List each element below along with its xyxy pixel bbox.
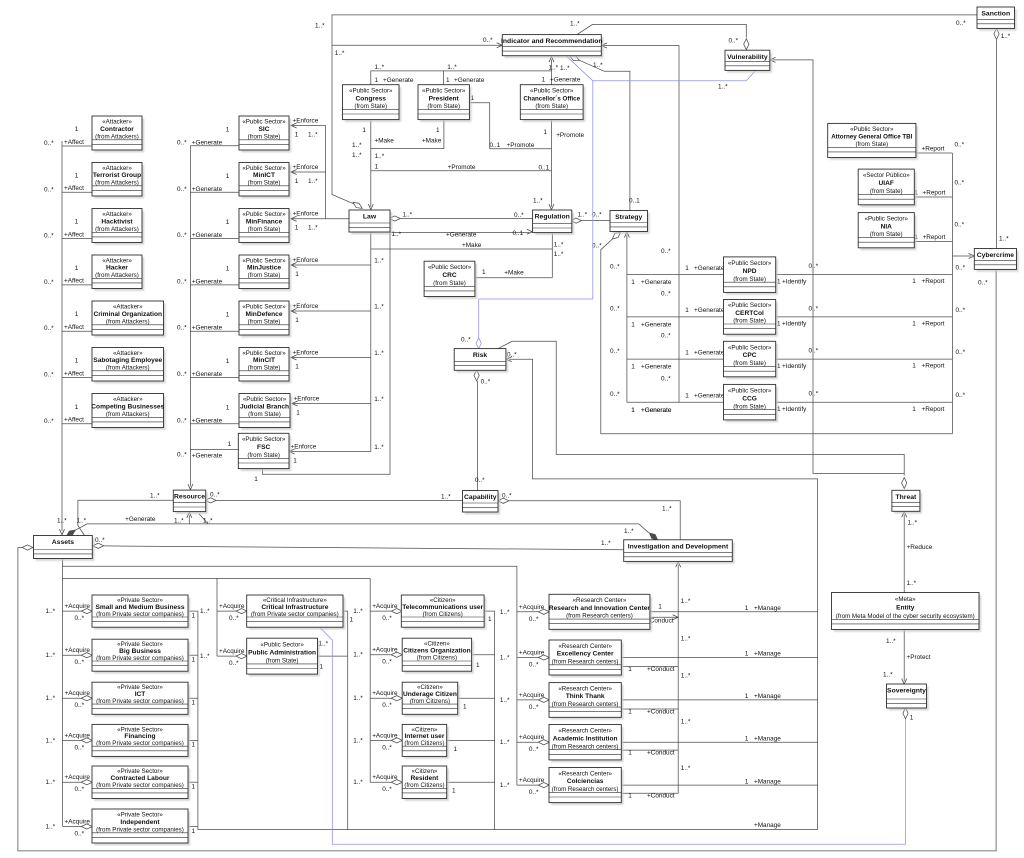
wire affect row 4 (62, 284, 92, 286)
wire Assets-Resource-IandD long (74, 524, 649, 533)
svg-text:(from Research centers): (from Research centers) (552, 658, 619, 665)
svg-text:Sanction: Sanction (981, 11, 1010, 18)
wire Risk-Threat (498, 341, 904, 475)
svg-text:(from Attackers): (from Attackers) (106, 365, 150, 372)
wire Cybercrime-Assets loop (18, 269, 996, 851)
svg-text:0..*: 0..* (955, 141, 965, 148)
wire Chancellor to Indicator (551, 60, 553, 85)
svg-text:1..*: 1..* (353, 608, 363, 615)
svg-text:0..*: 0..* (177, 325, 187, 332)
svg-text:Cybercrime: Cybercrime (977, 252, 1015, 259)
aggregation diamond at Vulnerability top (744, 39, 749, 50)
class Underage Citizen (402, 682, 460, 716)
svg-text:Academic Institution: Academic Institution (553, 735, 618, 742)
wire private right stub (188, 739, 198, 741)
svg-text:1: 1 (75, 311, 79, 318)
wire acquire research 1 (517, 611, 549, 613)
svg-text:1..*: 1..* (375, 64, 385, 71)
aggregation diamond at Regulation right (571, 218, 582, 223)
svg-text:0..*: 0..* (382, 702, 392, 709)
svg-text:1: 1 (912, 321, 916, 328)
svg-text:1..*: 1..* (886, 638, 896, 645)
wire citizen right stub (447, 739, 495, 741)
svg-text:«Private Sector»: «Private Sector» (117, 768, 163, 775)
svg-text:1: 1 (295, 317, 299, 324)
svg-text:1..*: 1..* (554, 242, 564, 249)
svg-text:1..*: 1..* (374, 304, 384, 311)
blue aggregation diamond at Risk top (476, 338, 481, 349)
svg-text:0..*: 0..* (461, 337, 471, 344)
svg-text:+Identify: +Identify (782, 321, 807, 328)
svg-text:+Generate: +Generate (383, 77, 414, 84)
svg-text:0..*: 0..* (502, 492, 512, 499)
svg-text:«Attacker»: «Attacker» (113, 350, 143, 357)
svg-text:0..*: 0..* (44, 372, 54, 379)
arrowhead into Assets top (60, 529, 65, 535)
arrowhead into Threat bottom (902, 512, 907, 518)
svg-text:Terrorist Group: Terrorist Group (93, 172, 141, 179)
class CCG (724, 384, 778, 422)
svg-text:1: 1 (685, 265, 689, 272)
svg-text:+Affect: +Affect (64, 417, 84, 424)
wire ministry generate bus (189, 146, 191, 486)
wire citizen right stub (472, 654, 495, 656)
svg-text:+Acquire: +Acquire (372, 774, 398, 781)
svg-text:+Report: +Report (923, 234, 946, 241)
svg-text:Public Administration: Public Administration (248, 649, 316, 656)
wire affect row 1 (62, 145, 92, 147)
wire generate row 3 (190, 238, 239, 240)
svg-text:1: 1 (192, 828, 196, 835)
class Small and Medium Business (92, 595, 190, 630)
class Assets (34, 536, 95, 561)
svg-text:1..*: 1..* (681, 673, 691, 680)
svg-text:1..*: 1..* (500, 782, 510, 789)
class Risk (454, 349, 508, 373)
wire President promote (469, 103, 551, 149)
svg-text:0..*: 0..* (44, 140, 54, 147)
svg-text:Risk: Risk (473, 352, 488, 359)
svg-text:0..1: 0..1 (629, 198, 640, 205)
svg-text:1: 1 (745, 778, 749, 785)
class NIA (858, 213, 916, 251)
svg-text:«Public Sector»: «Public Sector» (242, 165, 286, 172)
svg-text:1: 1 (293, 458, 297, 465)
aggregation diamond at Threat top (902, 478, 907, 489)
svg-text:MinDefence: MinDefence (245, 311, 282, 318)
class Regulation (533, 210, 574, 235)
svg-text:(from Private sector companies: (from Private sector companies) (96, 826, 184, 833)
svg-text:1..*: 1..* (46, 695, 56, 702)
composition diamond at Assets top (66, 530, 75, 536)
aggregation diamond at Resource right (205, 498, 216, 503)
svg-text:0..*: 0..* (809, 305, 819, 312)
svg-text:0..*: 0..* (955, 221, 965, 228)
svg-text:0..*: 0..* (955, 180, 965, 187)
svg-text:«Public Sector»: «Public Sector» (349, 87, 393, 94)
wire to Indicator left (332, 44, 502, 46)
svg-text:+Generate: +Generate (192, 325, 223, 332)
wire generate row 4 (190, 284, 239, 286)
svg-text:Threat: Threat (896, 494, 918, 501)
aggregation diamond at Assets right (93, 543, 104, 548)
class Academic Institution (549, 725, 624, 763)
svg-text:Citizens Organization: Citizens Organization (403, 648, 470, 655)
class Judicial Branch (239, 394, 292, 430)
svg-text:Sabotaging Employee: Sabotaging Employee (93, 357, 162, 364)
class Research and Innovation Center (549, 594, 652, 631)
svg-text:1: 1 (446, 77, 450, 84)
composition diamond at IandD top-left (649, 533, 657, 540)
svg-text:1..*: 1..* (500, 655, 510, 662)
wire agency row 4 left (627, 401, 724, 403)
svg-text:0..*: 0..* (75, 659, 85, 666)
svg-text:«Attacker»: «Attacker» (102, 118, 132, 125)
wire Assets bottom stem (62, 559, 64, 579)
svg-text:1: 1 (192, 742, 196, 749)
svg-text:+Promote: +Promote (448, 164, 476, 171)
svg-text:+Report: +Report (922, 406, 945, 413)
wire acquire research 3 (517, 699, 549, 701)
class Strategy (610, 211, 650, 234)
svg-text:0..*: 0..* (514, 212, 524, 219)
svg-text:(from Attackers): (from Attackers) (95, 180, 139, 187)
wire enforce row 8 (289, 451, 371, 453)
wire enforce row 6 (291, 357, 371, 359)
svg-text:0..*: 0..* (507, 351, 517, 358)
svg-text:Attorney General Office TBI: Attorney General Office TBI (831, 133, 912, 140)
svg-text:+Acquire: +Acquire (519, 692, 545, 699)
blue wire Risk-Vulnerability (479, 71, 756, 349)
svg-text:0..*: 0..* (529, 662, 539, 669)
class Indicator and Recommendation (501, 35, 603, 59)
svg-text:0..*: 0..* (382, 744, 392, 751)
class Public Administration (247, 638, 320, 676)
class Sanction (977, 7, 1017, 31)
svg-text:1..*: 1..* (593, 62, 603, 69)
aggregation diamond at Strategy bottom (612, 232, 620, 239)
wire generate row 2 (190, 191, 239, 193)
svg-text:«Attacker»: «Attacker» (102, 257, 132, 264)
svg-text:«Public Sector»: «Public Sector» (242, 350, 286, 357)
svg-text:1..*: 1..* (570, 20, 580, 27)
svg-text:1: 1 (542, 77, 546, 84)
class MinDefence (239, 301, 291, 337)
wire report bus (951, 153, 953, 434)
aggregation diamond at Assets left (22, 545, 33, 550)
svg-text:(from Citizens): (from Citizens) (410, 698, 450, 705)
svg-text:1..*: 1..* (46, 779, 56, 786)
svg-text:+Generate: +Generate (192, 139, 223, 146)
svg-text:«Meta»: «Meta» (895, 596, 916, 603)
svg-text:«Public Sector»: «Public Sector» (242, 118, 286, 125)
wire generate row 6 (190, 377, 239, 379)
wire acquire private 2 (63, 654, 93, 656)
svg-text:0..*: 0..* (177, 186, 187, 193)
svg-text:+Affect: +Affect (64, 370, 84, 377)
svg-text:NPD: NPD (743, 268, 757, 275)
svg-text:«Research Center»: «Research Center» (558, 727, 612, 734)
svg-text:+Acquire: +Acquire (372, 732, 398, 739)
svg-text:1..*: 1..* (200, 653, 210, 660)
wire acquire private 3 (63, 697, 93, 699)
svg-text:«Public Sector»: «Public Sector» (728, 387, 772, 394)
svg-text:0..*: 0..* (956, 392, 966, 399)
class Resident (402, 766, 449, 801)
svg-text:+Acquire: +Acquire (519, 777, 545, 784)
svg-text:FSC: FSC (257, 444, 270, 451)
svg-text:1: 1 (631, 279, 635, 286)
class Think Thank (549, 683, 624, 720)
wire conduct bus (677, 565, 679, 794)
svg-text:+Manage: +Manage (754, 778, 781, 785)
arrowhead into Indicator right (601, 43, 607, 48)
svg-text:1: 1 (226, 404, 230, 411)
svg-text:Colciencias: Colciencias (567, 778, 604, 785)
class CPC (724, 341, 778, 379)
wire enforce bus upper (325, 126, 327, 219)
svg-text:Hacktivist: Hacktivist (101, 218, 133, 225)
svg-text:0..*: 0..* (481, 378, 491, 385)
svg-text:1: 1 (192, 657, 196, 664)
svg-text:(from Research centers): (from Research centers) (552, 701, 619, 708)
svg-text:CRC: CRC (442, 272, 457, 279)
svg-text:1..*: 1..* (447, 64, 457, 71)
arrowhead into Resource top (188, 484, 193, 490)
svg-text:0..*: 0..* (729, 37, 739, 44)
svg-text:1: 1 (226, 265, 230, 272)
svg-text:0..*: 0..* (44, 418, 54, 425)
svg-text:«Public Sector»: «Public Sector» (243, 396, 287, 403)
svg-text:1: 1 (226, 219, 230, 226)
svg-text:1: 1 (75, 126, 79, 133)
svg-text:1: 1 (228, 441, 232, 448)
svg-text:1: 1 (912, 363, 916, 370)
svg-text:0..1: 0..1 (513, 230, 524, 237)
svg-text:+Protect: +Protect (907, 654, 931, 661)
svg-text:+Manage: +Manage (754, 651, 781, 658)
wire generate row 5 (190, 330, 239, 332)
svg-text:1..*: 1..* (57, 517, 67, 524)
svg-text:0..*: 0..* (210, 491, 220, 498)
svg-text:(from Citizens): (from Citizens) (417, 655, 457, 662)
svg-text:«Public Sector»: «Public Sector» (242, 257, 286, 264)
svg-text:(from Research centers): (from Research centers) (552, 786, 619, 793)
aggregation diamond at Law right (389, 216, 400, 221)
svg-text:«Public Sector»: «Public Sector» (428, 264, 472, 271)
svg-text:+Affect: +Affect (64, 185, 84, 192)
svg-text:1: 1 (912, 278, 916, 285)
svg-text:1..*: 1..* (335, 50, 345, 57)
svg-text:1: 1 (745, 651, 749, 658)
arrowhead into Regulation top (549, 204, 554, 210)
svg-text:0..*: 0..* (978, 279, 988, 286)
svg-text:UIAF: UIAF (879, 180, 894, 187)
class Congress (343, 85, 402, 122)
svg-text:0..*: 0..* (382, 786, 392, 793)
svg-text:1..*: 1..* (681, 765, 691, 772)
wire private right stub (188, 610, 198, 612)
wire Sanction-Cybercrime (996, 40, 998, 249)
class Cybercrime (974, 249, 1018, 272)
svg-text:Judicial Branch: Judicial Branch (240, 403, 289, 410)
svg-text:+Enforce: +Enforce (294, 396, 320, 403)
svg-text:Excellency Center: Excellency Center (557, 651, 614, 658)
wire enforce row 5 (291, 310, 371, 312)
svg-text:1..*: 1..* (374, 258, 384, 265)
blue wire CriticalInfrastructure-Sovereignty (320, 628, 906, 845)
wire frame top (63, 577, 371, 579)
svg-text:(from State): (from State) (427, 103, 460, 110)
svg-text:1..*: 1..* (500, 609, 510, 616)
class Excellency Center (549, 640, 624, 677)
svg-text:+Generate: +Generate (641, 407, 672, 414)
wire Entity-Threat reduce (903, 515, 905, 593)
wire enforce row 1 (291, 125, 326, 127)
wire acquire private 5 (63, 781, 93, 783)
svg-text:1..*: 1..* (500, 697, 510, 704)
svg-text:0..*: 0..* (177, 371, 187, 378)
svg-text:«Public Sector»: «Public Sector» (242, 436, 286, 443)
wire conduct row 3 (621, 708, 678, 710)
aggregation diamond at Sovereignty bottom (903, 708, 908, 719)
svg-text:1: 1 (482, 269, 486, 276)
svg-text:+Identify: +Identify (782, 363, 807, 370)
wire Resource-Capability (216, 499, 463, 501)
svg-text:1..*: 1..* (46, 737, 56, 744)
class President (418, 85, 472, 122)
arrowhead into Strategy bottom (624, 232, 629, 238)
wire manage row 6 (198, 829, 818, 831)
svg-text:1: 1 (75, 172, 79, 179)
svg-text:Vulnerability: Vulnerability (727, 54, 768, 61)
svg-text:1: 1 (628, 666, 632, 673)
arrowhead into Resource bottom (187, 512, 192, 518)
svg-text:0..*: 0..* (75, 615, 85, 622)
class Critical Infrastructure (247, 595, 346, 630)
wire acquire research 5 (517, 784, 549, 786)
class Citizens Organization (402, 638, 474, 673)
wire acquire research 4 (517, 741, 549, 743)
svg-text:«Research Center»: «Research Center» (558, 770, 612, 777)
svg-text:Contractor: Contractor (100, 126, 134, 133)
svg-text:+Promote: +Promote (556, 132, 584, 139)
svg-text:«Attacker»: «Attacker» (113, 303, 143, 310)
svg-text:(from Attackers): (from Attackers) (95, 272, 139, 279)
svg-text:1..*: 1..* (353, 695, 363, 702)
class Big Business (92, 639, 190, 673)
svg-text:+Acquire: +Acquire (372, 603, 398, 610)
svg-text:0..*: 0..* (44, 233, 54, 240)
wire agency row 4 right (776, 401, 953, 403)
svg-text:Think Thank: Think Thank (566, 693, 605, 700)
svg-text:(from State): (from State) (870, 231, 903, 238)
class MinJustice (239, 255, 291, 291)
wire Assets-IandD (104, 546, 624, 550)
svg-text:0..*: 0..* (809, 263, 819, 270)
svg-text:0..*: 0..* (610, 306, 620, 313)
wire private right bus (197, 611, 199, 830)
svg-text:+Identify: +Identify (782, 278, 807, 285)
wire acquire PA (217, 655, 247, 657)
svg-text:+Affect: +Affect (64, 139, 84, 146)
svg-text:(from State): (from State) (535, 103, 568, 110)
svg-text:«Public Sector»: «Public Sector» (865, 215, 909, 222)
wire enforce bus lower (370, 232, 372, 452)
arrowhead into Indicator bottom (549, 57, 554, 63)
svg-text:+Generate: +Generate (641, 364, 672, 371)
svg-text:0..*: 0..* (177, 278, 187, 285)
svg-text:1..*: 1..* (203, 517, 213, 524)
svg-text:1..*: 1..* (319, 640, 329, 647)
wire conduct row 1 (650, 616, 678, 618)
svg-text:+Report: +Report (922, 146, 945, 153)
svg-text:+Acquire: +Acquire (519, 604, 545, 611)
svg-text:1..*: 1..* (375, 153, 385, 160)
svg-text:(from Private sector companies: (from Private sector companies) (96, 655, 184, 662)
wire Chancellor promote (551, 120, 553, 207)
svg-text:Chancellor´s Office: Chancellor´s Office (523, 95, 580, 102)
svg-text:«Public Sector»: «Public Sector» (260, 641, 304, 648)
svg-text:«Attacker»: «Attacker» (102, 165, 132, 172)
wire President make (371, 118, 444, 149)
svg-text:+Report: +Report (922, 278, 945, 285)
svg-text:Competing Businesses: Competing Businesses (91, 403, 164, 410)
wire promote long (371, 170, 552, 172)
svg-text:0..*: 0..* (529, 746, 539, 753)
wire Congress make (370, 120, 372, 207)
wire citizens right bus (494, 611, 496, 830)
svg-text:CERTCol: CERTCol (735, 310, 764, 317)
svg-text:+Report: +Report (922, 363, 945, 370)
svg-text:+Generate: +Generate (446, 231, 477, 238)
svg-text:0..*: 0..* (75, 831, 85, 838)
svg-text:(from Attackers): (from Attackers) (95, 133, 139, 140)
svg-text:1: 1 (295, 225, 299, 232)
svg-text:1: 1 (75, 404, 79, 411)
svg-text:Law: Law (363, 214, 377, 221)
svg-text:+Conduct: +Conduct (647, 793, 675, 800)
svg-text:1..*: 1..* (46, 652, 56, 659)
svg-text:1: 1 (631, 407, 635, 414)
arrowhead into Sovereignty top (902, 679, 907, 685)
class UIAF (858, 169, 916, 207)
svg-text:0..*: 0..* (177, 417, 187, 424)
svg-text:«Citizen»: «Citizen» (412, 768, 438, 775)
svg-text:0..1: 0..1 (490, 142, 501, 149)
svg-text:0..*: 0..* (592, 211, 602, 218)
svg-text:«Public Sector»: «Public Sector» (530, 87, 574, 94)
svg-text:0..*: 0..* (529, 704, 539, 711)
svg-text:«Citizen»: «Citizen» (424, 640, 450, 647)
svg-text:1..*: 1..* (560, 65, 570, 72)
svg-text:1..*: 1..* (77, 517, 87, 524)
svg-text:1..*: 1..* (374, 350, 384, 357)
svg-text:+Generate: +Generate (192, 371, 223, 378)
svg-text:1..*: 1..* (352, 152, 362, 159)
class Terrorist Group (92, 163, 144, 199)
wire affect row 2 (62, 191, 92, 193)
svg-text:1: 1 (631, 364, 635, 371)
svg-text:MinICT: MinICT (253, 172, 275, 179)
svg-text:0..*: 0..* (592, 243, 602, 250)
svg-text:1: 1 (436, 127, 440, 134)
svg-text:1..*: 1..* (200, 608, 210, 615)
svg-text:1..*: 1..* (908, 519, 918, 526)
svg-text:Independent: Independent (120, 819, 160, 826)
class Internet user (402, 724, 449, 758)
svg-text:+Generate: +Generate (694, 265, 725, 272)
